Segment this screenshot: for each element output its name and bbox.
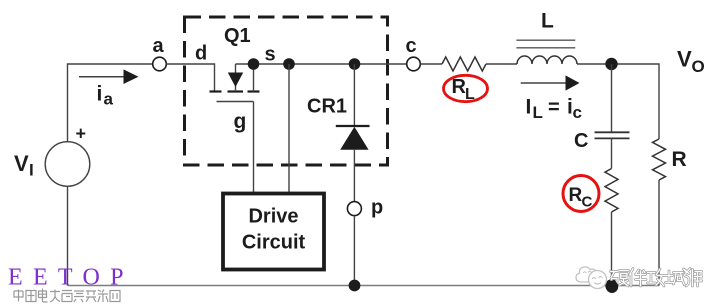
junction output node <box>605 58 617 70</box>
wire: node c to RL <box>420 63 442 65</box>
svg-text:C: C <box>582 194 593 211</box>
svg-text:I: I <box>526 96 532 119</box>
svg-text:V: V <box>14 151 29 176</box>
wire: capacitor to RC <box>611 138 613 168</box>
label Drive Circuit <box>242 206 306 254</box>
Q1 channel bar segments <box>210 90 260 92</box>
svg-text:+: + <box>76 124 87 144</box>
Q1 right contact vertical <box>253 64 255 92</box>
red ellipse around RL <box>444 75 488 101</box>
svg-text:V: V <box>677 47 692 72</box>
dashed converter cell box <box>185 17 388 165</box>
capacitor C <box>595 132 630 138</box>
resistor R (load) <box>653 139 666 180</box>
svg-text:g: g <box>234 110 247 133</box>
inductor L coil <box>517 56 577 64</box>
current arrow IL <box>521 75 580 90</box>
svg-text:c: c <box>406 35 417 57</box>
source VI circle <box>45 142 90 187</box>
node a (open terminal) <box>153 57 167 71</box>
svg-text:R: R <box>672 148 687 171</box>
wire: node a to Q1 drain <box>166 64 214 91</box>
svg-text:Q1: Q1 <box>224 25 251 47</box>
drive circuit block U1 <box>223 194 324 270</box>
watermark logo (cloud + lion face) <box>576 267 607 289</box>
junction bottom-rail output node (over watermark) <box>606 281 618 293</box>
svg-text:s: s <box>265 44 276 66</box>
wire: output node down to capacitor <box>611 64 613 132</box>
wire: R to bottom rail <box>658 180 660 286</box>
wire: Vi left branch (up from source, across to node a) <box>68 64 153 142</box>
svg-text:EETOP: EETOP <box>8 265 134 291</box>
svg-text:d: d <box>195 43 207 65</box>
label VO <box>677 47 705 77</box>
svg-text:a: a <box>104 90 114 109</box>
wire: gate to drive circuit <box>253 102 255 194</box>
svg-text:O: O <box>692 57 705 76</box>
Q1 gate bar <box>217 101 254 103</box>
label RC <box>569 185 593 211</box>
svg-text:C: C <box>574 130 588 152</box>
svg-text:=: = <box>548 97 560 119</box>
resistor RC (capacitor ESR) <box>605 169 618 213</box>
wire: top rail from Q1 source to node c <box>236 63 407 65</box>
svg-text:L: L <box>541 10 554 33</box>
wire: bottom rail <box>68 285 660 287</box>
label VI <box>14 151 34 180</box>
svg-text:L: L <box>533 103 543 122</box>
wire: L to output corner <box>577 64 659 139</box>
current arrow ia <box>79 69 139 84</box>
wire: node p to bottom rail <box>353 216 355 286</box>
inductor L core bars <box>516 40 575 48</box>
node c (open terminal) <box>407 57 421 71</box>
svg-text:CR1: CR1 <box>307 96 347 118</box>
svg-text:a: a <box>153 35 165 57</box>
resistor RL (inductor ESR) <box>442 57 486 71</box>
svg-text:Circuit: Circuit <box>242 232 306 254</box>
svg-text:R: R <box>569 185 583 206</box>
junction drive tap <box>283 58 295 70</box>
junction at s <box>248 58 260 70</box>
wire: RC to bottom rail <box>611 212 613 286</box>
label IL = ic <box>526 96 582 123</box>
svg-text:i: i <box>97 83 103 106</box>
svg-text:I: I <box>29 161 34 180</box>
junction CR1 anode-top <box>349 58 361 70</box>
red circle around RC <box>563 176 599 212</box>
junction C-branch bottom <box>605 279 617 291</box>
diode CR1 <box>336 64 370 202</box>
svg-text:L: L <box>465 86 475 103</box>
EETOP Chinese subtitle (drawn glyph marks) <box>14 289 120 303</box>
junction CR1-bottom <box>349 280 361 292</box>
svg-text:c: c <box>573 103 582 122</box>
transistor Q1 (MOSFET) <box>210 64 260 102</box>
wire: Vi bottom lead <box>67 186 69 285</box>
label ia <box>97 83 114 109</box>
wire: RL to L <box>486 63 517 65</box>
Q1 body/source vertical with arrow <box>235 64 237 92</box>
watermark text 硬件攻城狮 (outlined glyph strokes) <box>611 269 702 287</box>
label RL <box>452 76 476 103</box>
svg-text:p: p <box>371 197 383 219</box>
svg-text:Drive: Drive <box>248 206 298 228</box>
node p (open terminal) <box>347 202 361 216</box>
wire: source sense to drive circuit <box>288 64 290 194</box>
